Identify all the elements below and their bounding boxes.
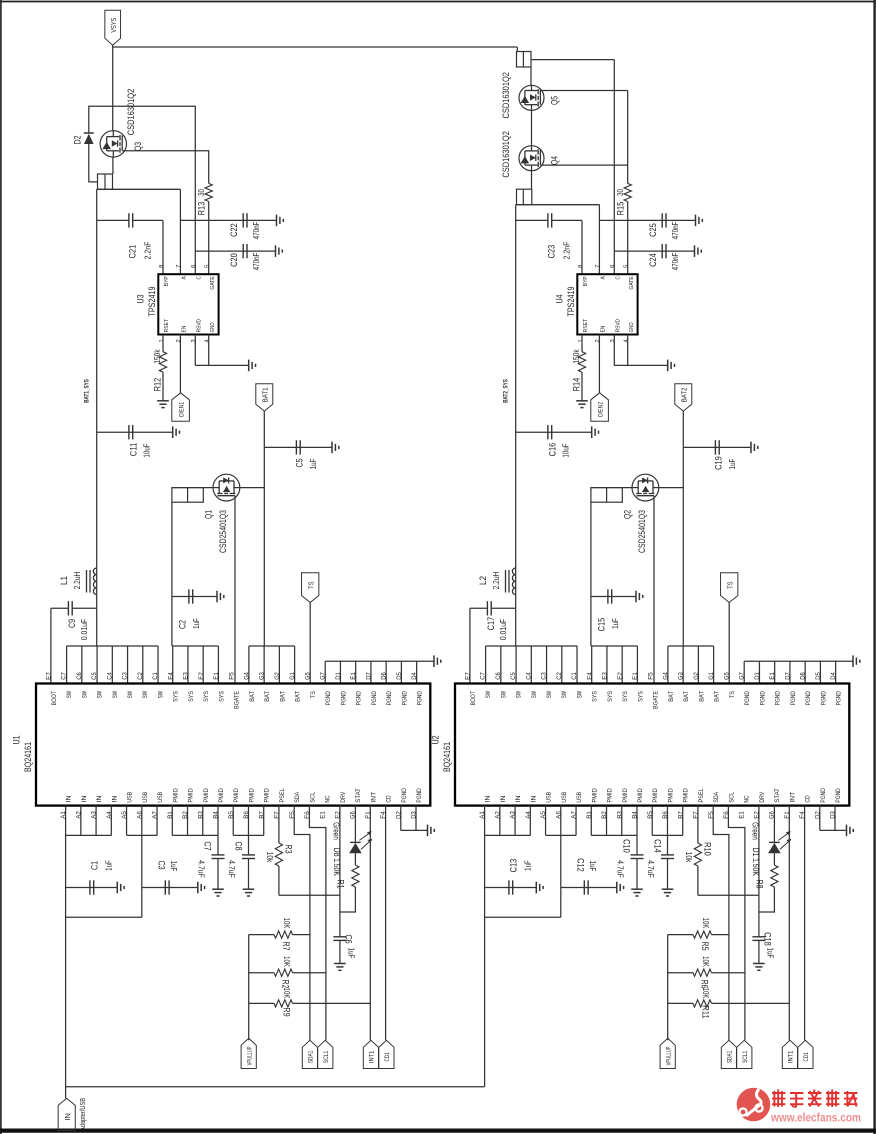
- svg-text:PGND: PGND: [775, 691, 782, 706]
- flag SCL1: [737, 1040, 752, 1068]
- svg-text:E7: E7: [464, 672, 471, 680]
- svg-text:1.50K: 1.50K: [332, 858, 342, 876]
- svg-text:G3: G3: [678, 672, 685, 680]
- resistor R6 10K: [668, 972, 693, 974]
- svg-text:4.7uF: 4.7uF: [615, 860, 625, 878]
- svg-text:BAT: BAT: [249, 691, 256, 702]
- svg-text:R15: R15: [615, 202, 626, 216]
- flag INT1: [363, 1040, 378, 1068]
- wire TS: [728, 603, 730, 685]
- wire TS: [309, 603, 311, 685]
- svg-text:GND: GND: [629, 322, 635, 332]
- svg-text:C6: C6: [495, 672, 502, 680]
- svg-text:GND: GND: [210, 322, 216, 332]
- svg-text:L1: L1: [59, 576, 70, 585]
- svg-text:CSD16301Q2: CSD16301Q2: [501, 72, 512, 119]
- svg-text:TPS2419: TPS2419: [147, 286, 158, 316]
- svg-text:IN: IN: [63, 1113, 72, 1120]
- svg-text:PMID: PMID: [218, 788, 225, 803]
- svg-text:D4: D4: [411, 672, 418, 680]
- svg-text:C1: C1: [89, 861, 100, 870]
- svg-text:2: 2: [595, 339, 601, 342]
- svg-text:PGND: PGND: [401, 691, 408, 706]
- svg-text:CSD16301Q2: CSD16301Q2: [126, 89, 137, 136]
- svg-text:D7: D7: [784, 672, 791, 680]
- svg-text:U1: U1: [11, 735, 22, 744]
- svg-text:IN: IN: [96, 795, 103, 802]
- svg-text:G4: G4: [662, 672, 669, 680]
- wire SDA: [713, 806, 729, 1041]
- svg-text:10K: 10K: [282, 956, 292, 967]
- svg-text:1uF: 1uF: [103, 860, 113, 871]
- svg-text:C3: C3: [122, 672, 129, 680]
- svg-text:PMID: PMID: [233, 788, 240, 803]
- flag IN: [58, 1098, 75, 1130]
- svg-text:SCL1: SCL1: [323, 1050, 330, 1063]
- svg-text:D1: D1: [750, 847, 761, 856]
- svg-text:C5: C5: [510, 672, 517, 680]
- svg-text:C1: C1: [571, 672, 578, 680]
- wire Q5 gate: [544, 90, 628, 92]
- svg-text:4.7uF: 4.7uF: [646, 860, 656, 878]
- svg-text:E2: E2: [617, 672, 624, 680]
- wire PGND bus: [744, 660, 853, 662]
- svg-text:R12: R12: [152, 378, 163, 392]
- svg-text:F5: F5: [228, 672, 235, 680]
- ground: [216, 591, 218, 603]
- wire Q3 to jumper: [112, 157, 114, 174]
- svg-text:C3: C3: [156, 860, 167, 869]
- svg-text:30: 30: [196, 189, 206, 196]
- svg-text:BOOT: BOOT: [470, 691, 477, 706]
- capacitor C15 1uF: [591, 596, 636, 598]
- svg-text:C: C: [196, 276, 202, 279]
- svg-text:BYP: BYP: [583, 276, 589, 286]
- svg-text:D6: D6: [381, 672, 388, 680]
- svg-text:6: 6: [191, 265, 197, 268]
- wire BAT2_SYS rail: [515, 205, 517, 609]
- svg-text:PMID: PMID: [188, 788, 195, 803]
- svg-text:R14: R14: [571, 377, 582, 391]
- svg-text:SCL: SCL: [728, 791, 735, 802]
- resistor R1 1.50K: [354, 853, 356, 865]
- svg-text:C21: C21: [127, 245, 138, 259]
- flag SCL1: [318, 1040, 333, 1068]
- svg-text:R13: R13: [196, 202, 207, 216]
- svg-text:SCL: SCL: [309, 791, 316, 802]
- wire INT net: [369, 806, 371, 1041]
- wire IN bus: [65, 806, 67, 836]
- wire Q5 to Q4: [531, 110, 533, 145]
- svg-text:BQ24161: BQ24161: [442, 742, 453, 772]
- svg-text:G1: G1: [708, 672, 715, 680]
- svg-text:IN: IN: [81, 795, 88, 802]
- svg-text:F5: F5: [647, 672, 654, 680]
- svg-text:E3: E3: [602, 672, 609, 680]
- ground: [197, 882, 199, 894]
- led D1 Green: [773, 806, 775, 843]
- ground: [433, 655, 435, 667]
- svg-text:SW: SW: [142, 691, 149, 698]
- svg-text:IN: IN: [66, 795, 73, 802]
- ground: [667, 360, 669, 372]
- svg-text:SDA1: SDA1: [308, 1050, 315, 1063]
- svg-text:R1: R1: [334, 879, 345, 888]
- svg-text:5: 5: [204, 265, 210, 268]
- svg-text:E1: E1: [213, 672, 220, 680]
- wire EN to flag: [598, 335, 600, 393]
- svg-text:8: 8: [578, 265, 584, 268]
- svg-text:BQ24161: BQ24161: [23, 742, 34, 772]
- svg-text:E7: E7: [45, 672, 52, 680]
- capacitor C5 1uF: [264, 446, 332, 448]
- svg-text:PMID: PMID: [683, 788, 690, 803]
- svg-text:INT: INT: [370, 792, 377, 803]
- ground: [157, 400, 169, 402]
- svg-text:PGND: PGND: [325, 691, 332, 706]
- ground: [750, 442, 752, 454]
- svg-text:C13: C13: [508, 859, 519, 873]
- svg-text:PMID: PMID: [248, 788, 255, 803]
- svg-text:PGND: PGND: [836, 691, 843, 706]
- capacitor C22: [180, 219, 276, 221]
- svg-text:PGND: PGND: [417, 691, 424, 706]
- capacitor C25: [599, 219, 695, 221]
- wire RSVD GND to ground: [613, 335, 615, 366]
- wire IN-USB tie: [485, 916, 561, 918]
- capacitor C11 10uF: [97, 431, 173, 433]
- ground: [535, 882, 537, 894]
- svg-text:C18: C18: [762, 932, 773, 946]
- wire BAT bus: [668, 645, 714, 647]
- jumper J3 bottom: [517, 189, 532, 204]
- svg-text:G4: G4: [243, 672, 250, 680]
- svg-text:10K: 10K: [282, 988, 292, 999]
- svg-text:BYP: BYP: [164, 276, 170, 286]
- wire SW bus: [515, 608, 517, 646]
- svg-text:D1: D1: [754, 672, 761, 680]
- flag O/EN1: [172, 393, 190, 422]
- svg-text:SYS: SYS: [188, 691, 195, 702]
- capacitor C24: [614, 250, 694, 252]
- svg-text:BAT1_SYS: BAT1_SYS: [84, 379, 91, 403]
- svg-text:PMID: PMID: [172, 788, 179, 803]
- wire Q3 gate to R13: [127, 151, 209, 184]
- svg-text:1uF: 1uF: [191, 618, 201, 629]
- svg-text:BAT: BAT: [698, 691, 705, 702]
- wire IN supply: [66, 1086, 485, 1088]
- svg-text:D5: D5: [396, 672, 403, 680]
- svg-text:SYS: SYS: [622, 691, 629, 702]
- svg-text:Q1: Q1: [203, 510, 214, 519]
- svg-text:BAT: BAT: [279, 691, 286, 702]
- svg-text:STAT: STAT: [774, 788, 781, 803]
- flag SDA1: [302, 1040, 317, 1068]
- svg-text:PMID: PMID: [637, 788, 644, 803]
- svg-text:D1: D1: [335, 672, 342, 680]
- svg-text:C12: C12: [575, 858, 586, 872]
- wire BAT2 net: [682, 411, 684, 646]
- svg-text:CSD25401Q3: CSD25401Q3: [218, 510, 229, 553]
- svg-text:TS: TS: [725, 581, 734, 588]
- svg-text:PGND: PGND: [835, 788, 842, 803]
- svg-text:8: 8: [159, 265, 165, 268]
- wire CD net: [804, 806, 806, 1041]
- svg-text:C4: C4: [525, 672, 532, 680]
- svg-text:D3: D3: [830, 811, 837, 819]
- ground: [334, 963, 346, 965]
- svg-text:470nF: 470nF: [251, 253, 261, 271]
- op-amp U2 BQ24161: [455, 684, 849, 806]
- svg-text:C2: C2: [137, 672, 144, 680]
- transistor Q3 CSD16301Q2: [100, 131, 126, 157]
- svg-text:1uF: 1uF: [610, 618, 620, 629]
- svg-text:SYS: SYS: [637, 691, 644, 702]
- svg-text:C25: C25: [648, 223, 659, 237]
- svg-text:IN: IN: [500, 795, 507, 802]
- capacitor C8 4.7uF: [248, 835, 250, 855]
- svg-text:PMID: PMID: [652, 788, 659, 803]
- ground: [591, 426, 593, 438]
- svg-text:1.50K: 1.50K: [751, 858, 761, 876]
- resistor R15 30: [624, 183, 631, 201]
- svg-text:PMID: PMID: [622, 788, 629, 803]
- svg-text:SW: SW: [66, 691, 73, 698]
- wire SDA: [294, 806, 310, 1041]
- svg-text:CD: CD: [805, 795, 812, 803]
- svg-text:D2: D2: [72, 135, 83, 144]
- svg-text:R5: R5: [699, 941, 710, 950]
- svg-text:R3: R3: [282, 844, 293, 853]
- svg-text:R9: R9: [281, 1007, 292, 1016]
- flag VSYS: [105, 10, 121, 45]
- wire RSVD GND to ground: [194, 335, 196, 366]
- svg-text:U4: U4: [554, 294, 565, 304]
- svg-text:BAT2_SYS: BAT2_SYS: [503, 379, 510, 403]
- svg-text:INT1: INT1: [369, 1050, 376, 1063]
- wire INT net: [788, 806, 790, 1041]
- svg-text:USB: USB: [576, 792, 583, 803]
- svg-text:E1: E1: [769, 672, 776, 680]
- svg-text:TS: TS: [306, 581, 315, 588]
- ground: [331, 442, 333, 454]
- svg-text:SW: SW: [97, 691, 104, 698]
- flag CD1: [798, 1040, 813, 1068]
- svg-text:1uF: 1uF: [522, 860, 532, 871]
- ground: [753, 963, 765, 965]
- svg-text:C5: C5: [91, 672, 98, 680]
- svg-text:PMID: PMID: [264, 788, 271, 803]
- svg-text:PGND: PGND: [759, 691, 766, 706]
- svg-text:SYS: SYS: [173, 691, 180, 702]
- svg-text:Green: Green: [751, 822, 761, 840]
- svg-text:2.2nF: 2.2nF: [142, 242, 152, 260]
- svg-text:CD: CD: [386, 795, 393, 803]
- wire SYS bus: [590, 502, 592, 646]
- transistor Q2 CSD25401Q3: [632, 474, 659, 501]
- svg-text:C3: C3: [541, 672, 548, 680]
- svg-text:NC: NC: [744, 795, 751, 803]
- resistor R9 10K: [249, 1002, 274, 1004]
- svg-text:Q4: Q4: [549, 155, 560, 165]
- svg-text:G7: G7: [320, 672, 327, 680]
- capacitor C12 1uF: [561, 887, 617, 889]
- svg-text:SDA: SDA: [294, 791, 301, 803]
- resistor R13 30: [205, 183, 212, 201]
- svg-text:BGATE: BGATE: [653, 691, 660, 709]
- svg-text:1uF: 1uF: [169, 861, 179, 872]
- svg-text:G7: G7: [739, 672, 746, 680]
- wire SYS bus: [171, 502, 173, 646]
- svg-text:BAT1: BAT1: [260, 388, 269, 403]
- svg-text:SW: SW: [500, 691, 507, 698]
- svg-text:D3: D3: [411, 811, 418, 819]
- ground: [846, 825, 848, 837]
- svg-text:10K: 10K: [701, 956, 711, 967]
- svg-text:E1: E1: [632, 672, 639, 680]
- svg-text:IN: IN: [515, 795, 522, 802]
- svg-text:D7: D7: [365, 672, 372, 680]
- svg-text:6: 6: [610, 265, 616, 268]
- resistor R8 1.50K: [773, 853, 775, 865]
- svg-text:NC: NC: [325, 795, 332, 803]
- svg-text:USB: USB: [127, 792, 134, 803]
- op-amp U4 TPS2419: [577, 274, 637, 334]
- wire D2 branch: [89, 106, 196, 274]
- wire Q1 gate to BGATE: [234, 501, 236, 684]
- svg-text:2.2uH: 2.2uH: [491, 572, 501, 590]
- svg-text:F1: F1: [784, 811, 791, 819]
- svg-text:1uF: 1uF: [588, 861, 598, 872]
- wire VPULLUP rail: [667, 935, 669, 1041]
- flag TS: [302, 573, 319, 603]
- svg-text:C6: C6: [343, 934, 354, 943]
- svg-text:C7: C7: [61, 672, 68, 680]
- svg-text:SW: SW: [81, 691, 88, 698]
- capacitor C16 10uF: [516, 431, 592, 433]
- svg-text:PGND: PGND: [416, 788, 423, 803]
- svg-text:SW: SW: [485, 691, 492, 698]
- svg-text:10K: 10K: [282, 918, 292, 929]
- svg-text:1uF: 1uF: [727, 459, 737, 470]
- svg-text:C15: C15: [597, 618, 608, 632]
- resistor R7 10K: [249, 934, 274, 936]
- wire Q2 gate to BGATE: [653, 501, 655, 684]
- svg-text:10K: 10K: [701, 988, 711, 999]
- wire PMID bus: [171, 806, 173, 836]
- ground: [243, 888, 255, 890]
- svg-text:150k: 150k: [571, 349, 581, 364]
- svg-text:R11: R11: [700, 1005, 711, 1019]
- flag CD1: [379, 1040, 394, 1068]
- svg-text:BGATE: BGATE: [234, 691, 241, 709]
- wire PMID bus: [590, 806, 592, 836]
- svg-text:RSVD: RSVD: [196, 319, 202, 332]
- wire IN bus: [484, 806, 486, 836]
- svg-text:4.7uF: 4.7uF: [227, 860, 237, 878]
- ground: [662, 888, 674, 890]
- svg-text:7: 7: [176, 265, 182, 268]
- svg-text:BOOT: BOOT: [51, 691, 58, 706]
- svg-text:0.01uF: 0.01uF: [79, 619, 89, 640]
- ground: [695, 215, 697, 227]
- svg-text:C7: C7: [480, 672, 487, 680]
- svg-text:C2: C2: [556, 672, 563, 680]
- svg-text:0.01uF: 0.01uF: [498, 619, 508, 640]
- resistor R10 10k: [697, 806, 699, 844]
- svg-text:D4: D4: [830, 672, 837, 680]
- svg-text:SW: SW: [127, 691, 134, 698]
- svg-text:C10: C10: [621, 839, 632, 853]
- svg-text:C16: C16: [547, 443, 558, 457]
- capacitor C14 4.7uF: [667, 835, 669, 855]
- svg-text:O/EN1: O/EN1: [179, 402, 186, 418]
- svg-text:PGND: PGND: [820, 788, 827, 803]
- capacitor C9 0.01uF: [72, 607, 97, 609]
- svg-text:10k: 10k: [265, 852, 275, 863]
- wire VPULLUP rail: [248, 935, 250, 1041]
- wire PGND pins: [400, 806, 402, 831]
- svg-text:IN: IN: [530, 795, 537, 802]
- svg-text:E1: E1: [319, 811, 326, 819]
- wire IN-USB tie: [66, 916, 142, 918]
- capacitor C18 1uF: [752, 936, 765, 938]
- wire CD net: [385, 806, 387, 1041]
- svg-text:SW: SW: [546, 691, 553, 698]
- svg-text:C: C: [615, 276, 621, 279]
- wire BYP node to pin7 of U3: [97, 188, 181, 190]
- svg-text:10K: 10K: [701, 918, 711, 929]
- svg-text:C6: C6: [76, 672, 83, 680]
- ground: [172, 426, 174, 438]
- svg-text:SW: SW: [576, 691, 583, 698]
- diode D2: [84, 132, 94, 134]
- svg-text:PMID: PMID: [203, 788, 210, 803]
- svg-text:www.elecfans.com: www.elecfans.com: [770, 1111, 861, 1125]
- svg-text:4: 4: [623, 339, 629, 343]
- svg-text:C8: C8: [233, 841, 244, 850]
- svg-text:C2: C2: [178, 620, 189, 629]
- svg-text:4.7uF: 4.7uF: [196, 860, 206, 878]
- ground: [212, 888, 224, 890]
- capacitor C21: [97, 219, 129, 221]
- wire DRV net: [758, 806, 760, 937]
- flag VPULLUP: [241, 1038, 256, 1068]
- svg-text:BAT: BAT: [668, 691, 675, 702]
- svg-text:PGND: PGND: [805, 691, 812, 706]
- svg-text:RSET: RSET: [164, 319, 170, 333]
- svg-text:C1: C1: [152, 672, 159, 680]
- svg-text:PGND: PGND: [356, 691, 363, 706]
- ground: [276, 215, 278, 227]
- svg-text:USB: USB: [561, 792, 568, 803]
- resistor R11 10K: [668, 1002, 693, 1004]
- wire VSYS to Q5: [530, 67, 532, 85]
- svg-text:VSYS: VSYS: [109, 18, 118, 33]
- svg-text:2.2uH: 2.2uH: [72, 572, 82, 590]
- svg-text:GATE: GATE: [210, 276, 216, 290]
- wire jumper bottom: [97, 188, 181, 190]
- svg-text:CD1: CD1: [803, 1052, 810, 1062]
- wire BAT bus: [249, 645, 295, 647]
- svg-text:RSET: RSET: [583, 319, 589, 333]
- svg-text:BAT2: BAT2: [679, 388, 688, 403]
- svg-text:SW: SW: [561, 691, 568, 698]
- svg-text:SDA1: SDA1: [727, 1050, 734, 1063]
- svg-text:C9: C9: [67, 619, 78, 628]
- wire jumper J3 bottom: [516, 204, 600, 206]
- svg-text:C5: C5: [294, 458, 305, 467]
